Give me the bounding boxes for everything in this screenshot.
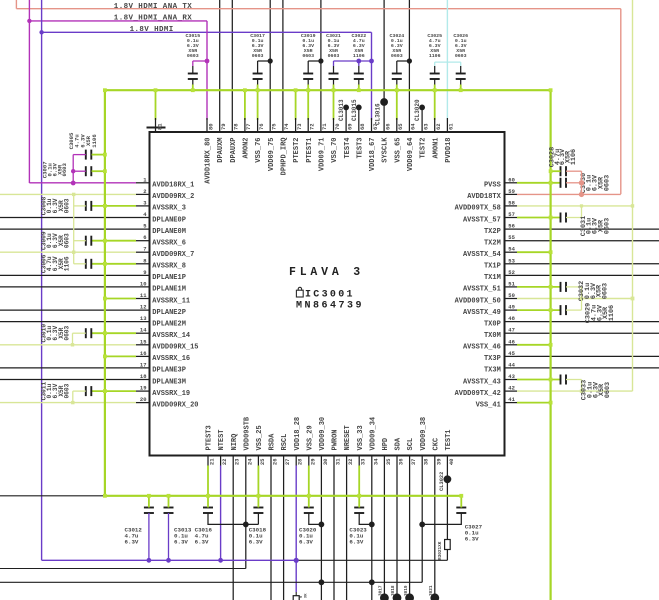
svg-text:0603: 0603 — [455, 53, 467, 59]
svg-text:VDD09_64: VDD09_64 — [407, 138, 415, 172]
capacitor C3032 0.1u — [560, 282, 562, 292]
svg-text:10: 10 — [140, 280, 147, 287]
svg-text:72: 72 — [309, 123, 316, 130]
svg-text:AVSSRX_16: AVSSRX_16 — [152, 355, 190, 363]
svg-text:80: 80 — [207, 123, 214, 130]
wire C3021 C3022 tops to 1.8V_HDMI — [333, 61, 335, 66]
svg-text:VDD09_30: VDD09_30 — [319, 417, 327, 451]
svg-text:CKC: CKC — [432, 438, 440, 451]
pin 1 AVDD18RX_1 — [136, 182, 150, 184]
pin 47 TX0M — [505, 332, 518, 334]
check land CL3020 pin63 — [419, 105, 425, 111]
svg-text:21: 21 — [209, 458, 216, 465]
svg-text:FLAVA 3: FLAVA 3 — [289, 266, 364, 279]
svg-text:AVSSRX_11: AVSSRX_11 — [152, 297, 190, 305]
wire 1.8V_HDMI — [41, 0, 43, 560]
pin 50 AVDD09TX_50 — [505, 298, 518, 300]
svg-text:76: 76 — [258, 123, 265, 130]
svg-text:VSS_76: VSS_76 — [255, 138, 263, 163]
wire AVSS bottom bus — [105, 495, 461, 497]
pin 77 AMON2 — [244, 90, 246, 120]
junction top bus pin81 — [154, 88, 158, 92]
svg-text:VSS_65: VSS_65 — [394, 138, 402, 163]
svg-text:DPLANE2P: DPLANE2P — [152, 309, 186, 317]
svg-text:TX2P: TX2P — [484, 228, 501, 236]
svg-text:TEST3: TEST3 — [356, 138, 364, 159]
wire C3027 bottom to VDD09_38 rail — [422, 513, 461, 524]
pin 26 RSDA — [270, 456, 272, 466]
svg-text:0603: 0603 — [187, 53, 199, 59]
pin 52 TX1M — [505, 274, 518, 276]
wire SYSCLK pin66 to top edge — [383, 0, 385, 132]
pin 11 AVSSRX_11 — [136, 298, 150, 300]
junction AVSS right pin54 — [549, 250, 553, 254]
svg-text:AVSSTX_51: AVSSTX_51 — [463, 286, 501, 294]
svg-text:AVDD09RX_2: AVDD09RX_2 — [152, 193, 194, 201]
svg-text:AMON2: AMON2 — [243, 138, 251, 159]
svg-text:0603: 0603 — [604, 382, 612, 398]
resistor R3021XK — [445, 540, 451, 550]
svg-text:29: 29 — [309, 459, 316, 466]
svg-text:TX3M: TX3M — [484, 367, 501, 375]
svg-text:1106: 1106 — [91, 134, 98, 148]
svg-text:XK: XK — [305, 593, 309, 598]
svg-text:37: 37 — [410, 459, 417, 466]
capacitor C3023 0.1u — [354, 507, 364, 509]
capacitor C3031 0.1u — [560, 213, 562, 223]
pin 33 VSS_33 — [358, 456, 360, 466]
svg-text:9: 9 — [143, 269, 146, 276]
svg-text:43: 43 — [508, 373, 515, 380]
capacitor C3028 4.7u — [560, 166, 562, 176]
svg-text:0603: 0603 — [252, 53, 264, 59]
svg-text:32: 32 — [347, 459, 354, 466]
capacitor C3026 0.1u — [456, 73, 466, 75]
svg-text:48: 48 — [508, 315, 515, 322]
junction top bus corners — [103, 88, 107, 92]
pin 13 DPLANE2M — [0, 321, 150, 323]
pin 45 TX3P — [505, 355, 518, 357]
capacitor C3016 4.7u — [203, 507, 213, 509]
pin 59 AVDD18TX — [505, 193, 518, 195]
svg-text:TX1P: TX1P — [484, 263, 501, 271]
svg-text:PTEST1: PTEST1 — [306, 138, 314, 163]
svg-text:TEST1: TEST1 — [445, 429, 453, 450]
wire AVDD09TX pale right vertical — [632, 0, 634, 391]
pin 72 PTEST1 — [307, 90, 309, 120]
svg-text:78: 78 — [233, 123, 240, 130]
svg-text:RSCL: RSCL — [281, 434, 289, 451]
svg-text:65: 65 — [397, 123, 404, 130]
wire C3025 C3026 tops to PVDD18 — [434, 62, 436, 66]
svg-text:44: 44 — [508, 361, 515, 368]
pin 32 NRESET — [346, 456, 348, 466]
capacitor C3010 0.1u — [85, 328, 87, 338]
svg-text:54: 54 — [508, 246, 515, 253]
junction top bus pin77 — [243, 88, 247, 92]
pin 27 RSCL — [283, 456, 285, 466]
capacitor C3013 0.1u — [164, 507, 174, 509]
wire 1.8V_HDMI_ANA_TX — [15, 0, 17, 9]
svg-text:VSS_29: VSS_29 — [306, 425, 314, 450]
svg-text:PVSS: PVSS — [484, 182, 501, 190]
capacitor C3009 0.1u — [85, 236, 87, 246]
svg-text:AVSSRX_19: AVSSRX_19 — [152, 390, 190, 398]
pin 68 TEST3 — [358, 107, 360, 132]
pin 60 PVSS — [505, 182, 518, 184]
svg-text:RSDA: RSDA — [269, 433, 277, 451]
svg-text:42: 42 — [508, 385, 515, 392]
junction top bus pin73 — [294, 88, 298, 92]
svg-text:41: 41 — [508, 396, 515, 403]
junction pale right pin58 — [631, 204, 634, 207]
svg-text:DPLANE2M: DPLANE2M — [152, 320, 186, 328]
wire AVSS left vertical — [104, 90, 106, 496]
pin 25 VSS_25 — [257, 456, 259, 466]
svg-text:AVDD09TX_42: AVDD09TX_42 — [455, 390, 501, 398]
pin 63 TEST2 — [421, 107, 423, 132]
capacitor C3007 0.1u — [85, 166, 87, 176]
junction AVSS right pin60 — [549, 181, 553, 185]
svg-text:AVSSRX_6: AVSSRX_6 — [152, 240, 186, 248]
wire VSS black continuation to left edge — [0, 495, 105, 497]
svg-text:47: 47 — [508, 327, 515, 334]
junction AVSS right pin46 — [549, 343, 553, 347]
pin 61 PVDD18 — [446, 118, 448, 132]
capacitor C3008 0.1u — [85, 201, 87, 211]
svg-text:TX0P: TX0P — [484, 320, 501, 328]
pin 65 VSS_65 — [396, 90, 398, 120]
pin 70 VSS_70 — [333, 90, 335, 120]
svg-text:14: 14 — [140, 327, 147, 334]
svg-text:NRESET: NRESET — [344, 425, 352, 450]
svg-text:60: 60 — [508, 176, 515, 183]
capacitor C3029 4.7u — [560, 305, 562, 315]
svg-text:1106: 1106 — [608, 305, 616, 321]
svg-text:30: 30 — [322, 459, 329, 466]
pin 8 AVSSRX_8 — [136, 263, 150, 265]
check land CL3021 — [430, 593, 439, 600]
wire C3024 top to pin64 rail — [396, 61, 398, 66]
wire VDD09_75 pin75 to top edge — [269, 0, 271, 132]
svg-text:33: 33 — [360, 458, 367, 465]
svg-text:12: 12 — [140, 304, 147, 311]
pin 18 DPLANE3M — [0, 379, 150, 381]
svg-text:69: 69 — [346, 123, 353, 130]
svg-text:22: 22 — [221, 459, 228, 466]
pin 16 AVSSRX_16 — [136, 355, 150, 357]
svg-text:3017: 3017 — [379, 585, 384, 596]
pin 31 PWRON — [333, 456, 335, 466]
wire C3016 C3018 bottoms to VDD09STB — [208, 513, 258, 524]
svg-text:TX0M: TX0M — [484, 332, 501, 340]
pin 17 DPLANE3P — [0, 367, 150, 369]
svg-text:AVDD09TX_50: AVDD09TX_50 — [455, 297, 501, 305]
pin 43 AVSSTX_43 — [505, 379, 518, 381]
svg-text:74: 74 — [283, 123, 290, 130]
pin 81 exposed pad — [155, 90, 157, 120]
svg-text:0603: 0603 — [64, 325, 71, 340]
svg-text:DPHPD_IRQ: DPHPD_IRQ — [281, 138, 289, 176]
capacitor C3005 4.7u — [85, 150, 87, 160]
svg-text:VSS_25: VSS_25 — [256, 425, 264, 450]
svg-text:0603: 0603 — [602, 283, 610, 299]
svg-text:1106: 1106 — [64, 256, 71, 271]
svg-text:AVDD09RX_20: AVDD09RX_20 — [152, 401, 198, 409]
pin 4 DPLANE0P — [0, 217, 150, 219]
pin 28 VDD18_28 — [295, 456, 297, 466]
pin 22 NTEST — [220, 456, 222, 466]
svg-text:68: 68 — [359, 123, 366, 130]
svg-text:23: 23 — [234, 458, 241, 465]
pin 67 VDD18_67 — [371, 118, 373, 132]
wire VDD09STB rail to left edge — [0, 568, 246, 570]
svg-text:VDD09_75: VDD09_75 — [268, 138, 276, 172]
svg-text:AVSSTX_49: AVSSTX_49 — [463, 309, 501, 317]
check land CL3022 pin40 — [444, 475, 452, 483]
svg-text:19: 19 — [140, 385, 147, 392]
wire AVDD09RX pale vertical pins2-7 caps — [74, 205, 86, 207]
wire 1.8V_HDMI_ANA_RX — [28, 0, 30, 183]
pin 51 AVSSTX_51 — [505, 286, 518, 288]
svg-text:IC3001: IC3001 — [305, 290, 355, 301]
wire C3020 bottom to VDD09 rail — [309, 513, 322, 524]
svg-text:CL3015: CL3015 — [351, 99, 358, 121]
check land CL3015 pin68 — [356, 105, 362, 111]
svg-text:VSS_41: VSS_41 — [476, 401, 501, 409]
svg-text:AVSSRX_14: AVSSRX_14 — [152, 332, 190, 340]
pin 56 TX2P — [505, 228, 518, 230]
svg-text:27: 27 — [284, 459, 291, 466]
wire DPAUXP pin78 to top edge — [231, 0, 233, 132]
svg-text:6.3V: 6.3V — [249, 539, 263, 546]
svg-text:39: 39 — [435, 459, 442, 466]
svg-text:63: 63 — [422, 123, 429, 130]
pad bottom 1.8V_HDMI — [293, 596, 299, 600]
svg-text:TX3P: TX3P — [484, 355, 501, 363]
capacitor C3017 0.1u — [253, 73, 263, 75]
pin 7 AVDD09RX_7 — [136, 251, 150, 253]
svg-text:DPLANE0P: DPLANE0P — [152, 216, 186, 224]
svg-text:VSS_33: VSS_33 — [357, 425, 365, 450]
pin 2 AVDD09RX_2 — [136, 193, 150, 195]
svg-text:AVDD09RX_7: AVDD09RX_7 — [152, 251, 194, 259]
svg-text:CL3020: CL3020 — [414, 99, 421, 121]
svg-text:0603: 0603 — [328, 53, 340, 59]
svg-text:40: 40 — [448, 459, 455, 466]
svg-text:0603: 0603 — [603, 218, 611, 234]
junction AVSS left vertical pin rows — [103, 204, 107, 208]
pin 21 PTEST3 — [207, 456, 209, 466]
svg-text:VDD09_71: VDD09_71 — [319, 138, 327, 172]
svg-text:6.3V: 6.3V — [465, 536, 479, 543]
pin 58 AVDD09TX_58 — [505, 205, 518, 207]
svg-text:6.3V: 6.3V — [195, 539, 209, 546]
svg-text:1106: 1106 — [353, 53, 365, 59]
svg-text:VDD09STB: VDD09STB — [243, 416, 251, 450]
pin 69 TEST4 — [345, 107, 347, 132]
svg-text:MN864739: MN864739 — [296, 301, 364, 312]
svg-text:56: 56 — [508, 223, 515, 230]
svg-text:79: 79 — [220, 123, 227, 130]
svg-text:AVSSTX_54: AVSSTX_54 — [463, 251, 501, 259]
svg-text:DPAUXP: DPAUXP — [230, 138, 238, 163]
svg-text:66: 66 — [384, 123, 391, 130]
wire C3012 C3013 bottoms to 1.8V_HDMI rail — [148, 513, 150, 560]
svg-text:26: 26 — [272, 459, 279, 466]
svg-text:6.3V: 6.3V — [349, 539, 363, 546]
svg-text:75: 75 — [271, 123, 278, 130]
pin 38 VDD09_38 — [421, 456, 423, 466]
pin 42 AVDD09TX_42 — [505, 390, 518, 392]
svg-text:3019: 3019 — [404, 585, 409, 596]
svg-text:20: 20 — [140, 396, 147, 403]
capacitor C3020 0.1u — [304, 507, 314, 509]
svg-text:13: 13 — [140, 315, 147, 322]
svg-text:77: 77 — [245, 123, 252, 130]
svg-text:0603: 0603 — [64, 383, 71, 398]
svg-text:38: 38 — [423, 458, 430, 465]
capacitor C3024 0.1u — [392, 73, 402, 75]
svg-text:71: 71 — [321, 123, 328, 130]
wire C3015 top to RX net — [192, 61, 194, 66]
svg-text:DPLANE1M: DPLANE1M — [152, 286, 186, 294]
junction AVSS right pin41 — [549, 401, 553, 405]
pin 29 VSS_29 — [308, 456, 310, 466]
svg-text:CL3013: CL3013 — [338, 99, 345, 121]
svg-text:24: 24 — [246, 458, 253, 465]
svg-text:35: 35 — [385, 458, 392, 465]
capacitor C3018 0.1u — [253, 507, 263, 509]
wire 1.8V_HDMI vertical to pin 67 — [371, 32, 373, 120]
svg-text:61: 61 — [448, 123, 455, 130]
pin 57 AVSSTX_57 — [505, 217, 518, 219]
svg-text:AVDD18RX_80: AVDD18RX_80 — [205, 138, 213, 184]
svg-text:PTEST3: PTEST3 — [206, 425, 214, 450]
svg-text:DPLANE0M: DPLANE0M — [152, 228, 186, 236]
svg-text:0603: 0603 — [302, 53, 314, 59]
pin 49 AVSSTX_49 — [505, 309, 518, 311]
wire DPAUXM pin79 to top edge — [219, 0, 221, 132]
IC IC3001 FLAVA3 body outline — [150, 132, 505, 456]
wire VDD09_64 pin64 to top edge — [408, 0, 410, 132]
pin 15 AVDD09RX_15 — [136, 344, 150, 346]
capacitor C3033 0.1u — [560, 375, 562, 385]
svg-text:50: 50 — [508, 292, 515, 299]
pin 55 TX2M — [505, 240, 518, 242]
svg-text:53: 53 — [508, 257, 515, 264]
wire VDD09 bottom rail to left edge — [0, 581, 422, 583]
pin 3 AVSSRX_3 — [136, 205, 150, 207]
svg-text:45: 45 — [508, 350, 515, 357]
svg-text:TEST4: TEST4 — [344, 138, 352, 159]
wire PVDD18 cyan vertical to pin 61 — [446, 0, 448, 120]
svg-text:0603: 0603 — [64, 198, 71, 213]
svg-text:73: 73 — [296, 123, 303, 130]
svg-text:TX1M: TX1M — [484, 274, 501, 282]
svg-text:57: 57 — [508, 211, 515, 218]
svg-text:TEST2: TEST2 — [420, 138, 428, 159]
svg-text:6.3V: 6.3V — [299, 539, 313, 546]
svg-text:AVSSRX_8: AVSSRX_8 — [152, 263, 186, 271]
svg-text:81: 81 — [157, 123, 164, 130]
svg-text:36: 36 — [398, 459, 405, 466]
svg-text:NIRQ: NIRQ — [231, 434, 239, 451]
capacitor C3012 4.7u — [144, 507, 154, 509]
pin 5 DPLANE0M — [0, 228, 150, 230]
pin 53 TX1P — [505, 263, 518, 265]
pin 30 VDD09_30 — [320, 456, 322, 466]
svg-text:DPLANE1P: DPLANE1P — [152, 274, 186, 282]
svg-text:11: 11 — [140, 292, 147, 299]
svg-text:0603: 0603 — [391, 53, 403, 59]
svg-text:VSS_70: VSS_70 — [331, 138, 339, 163]
svg-text:6.3V: 6.3V — [125, 539, 139, 546]
svg-text:NTEST: NTEST — [218, 429, 226, 450]
svg-text:59: 59 — [508, 188, 515, 195]
wire C3023 bottom to VDD09 rail — [359, 513, 372, 524]
svg-text:AVSSTX_57: AVSSTX_57 — [463, 216, 501, 224]
svg-text:34: 34 — [372, 458, 379, 465]
svg-text:64: 64 — [410, 123, 417, 130]
svg-text:18: 18 — [140, 373, 147, 380]
pin 23 NIRQ — [232, 456, 234, 466]
svg-text:52: 52 — [508, 269, 515, 276]
pin 34 VDD09_34 — [371, 456, 373, 466]
svg-text:46: 46 — [508, 338, 515, 345]
svg-text:AVDD18RX_1: AVDD18RX_1 — [152, 182, 194, 190]
svg-text:DPAUXM: DPAUXM — [217, 138, 225, 163]
wire AVDD09RX pale link C3010 pin15 — [73, 332, 86, 334]
pin 48 TX0P — [505, 321, 518, 323]
wire C3019 top to pin71 rail — [307, 61, 309, 66]
svg-text:DPLANE3M: DPLANE3M — [152, 378, 186, 386]
svg-text:AVDD09RX_15: AVDD09RX_15 — [152, 344, 198, 352]
svg-text:6: 6 — [143, 234, 146, 241]
svg-text:6.3V: 6.3V — [174, 539, 188, 546]
svg-text:15: 15 — [140, 338, 147, 345]
pin 46 AVSSTX_46 — [505, 344, 518, 346]
svg-text:SYSCLK: SYSCLK — [382, 137, 390, 163]
wire AVDD18RX vertical to pin 80 — [206, 21, 208, 120]
pin 19 AVSSRX_19 — [136, 390, 150, 392]
check land CL3019 — [405, 593, 414, 600]
capacitor C3021 0.1u — [329, 73, 339, 75]
svg-text:AVSSTX_46: AVSSTX_46 — [463, 344, 501, 352]
svg-text:HPD: HPD — [382, 438, 390, 451]
pin 41 VSS_41 — [505, 402, 518, 404]
svg-text:AVSSTX_43: AVSSTX_43 — [463, 378, 501, 386]
wire 1.8V_HDMI bottom rail — [42, 559, 297, 561]
svg-text:AVDD18TX: AVDD18TX — [467, 193, 501, 201]
capacitor C3019 0.1u — [303, 73, 313, 75]
svg-text:PVDD18: PVDD18 — [445, 138, 453, 163]
svg-text:VDD09_34: VDD09_34 — [369, 417, 377, 451]
wire VDD09_71 pin71 to top edge — [320, 0, 322, 132]
svg-text:SDA: SDA — [395, 437, 403, 450]
pin 12 DPLANE2P — [0, 309, 150, 311]
svg-text:1106: 1106 — [429, 53, 441, 59]
pin 6 AVSSRX_6 — [136, 240, 150, 242]
pin 40 TEST1 — [446, 456, 448, 466]
pin 39 CKC — [434, 456, 436, 466]
pin 37 SCL — [409, 456, 411, 466]
wire C3017 top to pin75 rail — [257, 61, 259, 66]
pin 80 AVDD18RX_80 — [206, 118, 208, 132]
check land CL3017 — [380, 593, 389, 600]
check land CL3018 — [393, 593, 402, 600]
pin 14 AVSSRX_14 — [136, 332, 150, 334]
